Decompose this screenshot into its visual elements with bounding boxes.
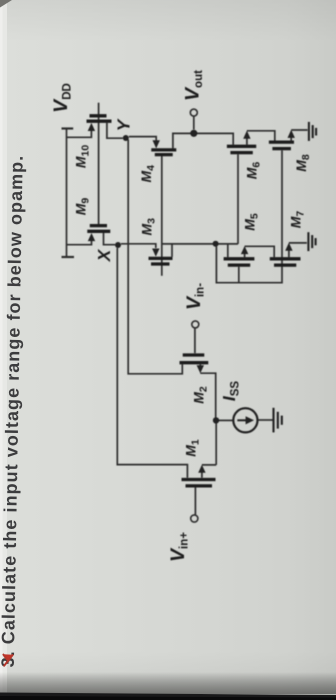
wire Vin- lead to M2 gate (194, 328, 196, 353)
node Vout junction dot (190, 130, 197, 137)
node net A junction dot (213, 241, 219, 247)
left page edge light strip (0, 0, 7, 700)
transistor M2 gate and channel bars (180, 355, 209, 363)
terminal Vout circle (190, 109, 197, 116)
wire M1 source to tail node (202, 424, 216, 478)
wire gate tie M3-M4 (161, 156, 163, 276)
arrow M6 source (NMOS, up away) (243, 131, 250, 139)
arrow M8 source (288, 130, 295, 138)
terminal Vin+ circle (191, 515, 198, 522)
wire M10 source lead to VDD rail (67, 131, 92, 137)
wire node Y down to M2 drain (128, 140, 182, 374)
svg-text:Y: Y (114, 118, 134, 131)
transistor M5 channel and gate bars (224, 259, 255, 265)
wire M6 source to M8 drain (247, 131, 275, 145)
transistor M1 channel and gate bars (182, 480, 216, 486)
wire tail node to ISS (219, 419, 234, 421)
wire node Y to M4 source (129, 137, 156, 141)
wire Vout rail from M4 drain to M6 drain (173, 133, 233, 148)
node tail junction dot (213, 417, 219, 423)
wire M5 drain stub (227, 244, 229, 257)
wire gate tie M9-M10 (98, 103, 100, 224)
transistor M8 channel and gate bars (269, 142, 294, 149)
arrow M2 source (down away) (197, 365, 204, 373)
arrow M3 source (152, 249, 159, 257)
ground symbol at M8 source (309, 122, 316, 141)
wire M7 source to ground (289, 243, 307, 257)
arrow M4 source (down into channel) (153, 140, 160, 148)
arrow M5 source (241, 246, 248, 254)
wire M6 gate lead (237, 154, 239, 244)
transistor M7 channel and gate bars (270, 259, 301, 265)
arrow M9 source (88, 233, 95, 241)
transistor M3 channel and gate bars (149, 258, 173, 264)
ground symbol at M7 source (308, 232, 315, 251)
wire M2 source to tail node (200, 364, 215, 417)
wire M8 source to ground (291, 130, 307, 141)
svg-text:X: X (94, 248, 114, 262)
dark corner top-left (0, 0, 12, 8)
transistor M4 channel and gate bars (151, 150, 176, 155)
transistor M6 channel and gate bars (227, 146, 256, 152)
wire ISS to ground (258, 419, 273, 421)
terminal Vin- circle (192, 321, 199, 328)
arrow M7 source (285, 243, 292, 251)
wire node X to M3 source (121, 244, 156, 248)
wire M5 gate lead (238, 267, 240, 283)
wire M5 source to M7 drain (245, 246, 275, 257)
red pen check mark (3, 654, 12, 665)
wire VDD rail (62, 129, 75, 258)
wire M9 drain lead to node X (104, 233, 116, 245)
arrow M10 source (PMOS, up into channel) (88, 123, 95, 131)
wire M10 drain lead to node Y (107, 123, 123, 138)
current source ISS circle and arrow (233, 408, 257, 432)
black bottom bar (0, 0, 1, 1)
wire Vout terminal lead (193, 116, 195, 129)
wire M1 gate lead to Vin+ (194, 488, 196, 515)
wire node X down to M1 drain (117, 248, 187, 478)
ground symbol at ISS (274, 408, 282, 433)
wire M3 drain stub to net A (171, 244, 173, 257)
wire M9 source lead to VDD rail (67, 241, 92, 245)
transistor M9 channel and gate bars (87, 226, 110, 232)
wire net A horizontal (162, 243, 238, 245)
transistor M10 channel and gate bars (87, 116, 112, 121)
arrow M1 source (up away) (198, 465, 205, 473)
node X junction dot (115, 242, 121, 248)
node Y junction dot (123, 135, 129, 141)
wire net B from dot down and right to M8 gate (216, 150, 282, 283)
